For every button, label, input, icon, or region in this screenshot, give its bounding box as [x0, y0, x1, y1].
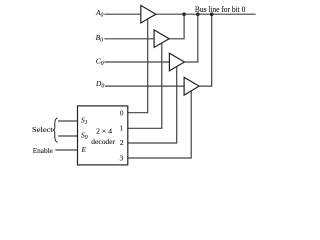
- wire C0 input: [105, 61, 169, 63]
- svg-text:0: 0: [120, 109, 124, 118]
- svg-text:3: 3: [120, 153, 124, 162]
- wire buffer4 output riser: [199, 14, 212, 86]
- svg-text:2 × 4: 2 × 4: [96, 127, 112, 136]
- node junction dot bus/buffer2: [182, 12, 186, 16]
- wire S1 input: [59, 120, 78, 122]
- wire S0 input: [59, 135, 78, 137]
- svg-text:Enable: Enable: [33, 146, 54, 155]
- brace for select lines: [53, 118, 58, 143]
- wire A0 input: [105, 13, 141, 15]
- tri-state buffer 3: [169, 53, 184, 71]
- svg-text:1: 1: [120, 123, 124, 132]
- wire buffer3 output riser: [184, 14, 198, 62]
- wire bus line: [156, 13, 255, 15]
- svg-text:Bus line for bit 0: Bus line for bit 0: [195, 4, 245, 14]
- svg-text:decoder: decoder: [91, 137, 115, 146]
- wire buffer2 output riser: [169, 14, 184, 39]
- svg-text:Select: Select: [32, 125, 54, 134]
- node junction dot bus/buffer4: [210, 12, 214, 16]
- decoder box U1: [78, 106, 128, 165]
- svg-text:2: 2: [120, 138, 124, 147]
- wire D0 input: [106, 85, 185, 87]
- wire decoder out1 to buffer2 enable: [128, 43, 162, 128]
- wire decoder out3 to buffer4 enable: [128, 91, 191, 158]
- tri-state buffer 4: [184, 77, 199, 95]
- wire B0 input: [105, 38, 154, 40]
- wire decoder out0 to buffer1 enable: [128, 19, 148, 113]
- svg-text:E: E: [81, 145, 87, 154]
- wire Enable input: [56, 149, 78, 151]
- node junction dot bus/buffer3: [196, 12, 200, 16]
- tri-state buffer 1: [141, 5, 156, 23]
- wire decoder out2 to buffer3 enable: [128, 67, 177, 144]
- tri-state buffer 2: [154, 30, 169, 48]
